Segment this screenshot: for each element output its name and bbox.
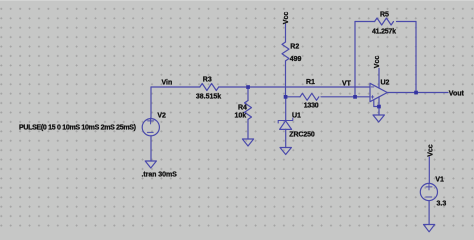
ground bbox=[424, 225, 435, 232]
op-amp bottom pins bbox=[374, 97, 379, 115]
node junction output/feedback bbox=[414, 91, 418, 95]
resistor R1 bbox=[300, 93, 319, 100]
wire main to op-amp bbox=[219, 86, 370, 88]
zener diode U1 bbox=[278, 118, 293, 123]
resistor R5 bbox=[375, 18, 394, 25]
svg-text:3.3: 3.3 bbox=[437, 201, 447, 208]
ground bbox=[145, 161, 156, 168]
svg-text:V1: V1 bbox=[435, 177, 444, 184]
op-amp Vcc pin bbox=[378, 68, 380, 88]
svg-text:Vcc: Vcc bbox=[427, 144, 434, 157]
svg-text:1330: 1330 bbox=[304, 103, 319, 110]
wire feedback top left bbox=[355, 21, 375, 23]
wire V1 Vcc lead bbox=[428, 157, 430, 183]
wire output bbox=[387, 92, 448, 94]
voltage source V2 bbox=[142, 119, 159, 136]
wire feedback right vertical bbox=[415, 22, 417, 93]
svg-text:U2: U2 bbox=[381, 79, 390, 86]
wire Vcc stub to R2 bbox=[285, 24, 287, 42]
svg-text:V2: V2 bbox=[157, 113, 166, 120]
svg-text:R3: R3 bbox=[203, 77, 212, 84]
wire feedback left vertical bbox=[354, 22, 356, 97]
ground bbox=[242, 139, 253, 146]
node junction R2/U1/R1 bbox=[284, 95, 288, 99]
svg-text:41.257k: 41.257k bbox=[372, 29, 396, 36]
svg-text:499: 499 bbox=[290, 56, 302, 63]
resistor R4 bbox=[245, 101, 252, 120]
wire node to R1 bbox=[286, 96, 301, 98]
wire zener bottom lead bbox=[285, 129, 287, 147]
svg-text:R4: R4 bbox=[238, 104, 247, 111]
svg-text:U1: U1 bbox=[292, 112, 301, 119]
svg-text:R1: R1 bbox=[306, 79, 315, 86]
wire Vin main left segment bbox=[151, 86, 200, 88]
svg-text:ZRC250: ZRC250 bbox=[289, 132, 315, 139]
resistor R2 bbox=[282, 42, 289, 61]
wire zener top lead bbox=[285, 97, 287, 121]
wire R1 to op-amp bbox=[321, 96, 370, 98]
svg-text:38.515k: 38.515k bbox=[196, 93, 221, 100]
wire V2 top lead bbox=[150, 87, 152, 119]
node junction op-amp power bbox=[377, 105, 381, 109]
svg-text:10k: 10k bbox=[235, 112, 247, 119]
op-amp U2 bbox=[370, 83, 387, 101]
wire feedback top right bbox=[397, 21, 417, 23]
wire V2 bottom lead bbox=[150, 136, 152, 161]
node junction R3/R4 bbox=[246, 85, 250, 89]
voltage source V1 bbox=[420, 183, 437, 200]
svg-text:Vout: Vout bbox=[449, 91, 465, 98]
wire V1 bottom lead bbox=[428, 201, 430, 225]
svg-text:R2: R2 bbox=[290, 43, 299, 50]
svg-text:Vcc: Vcc bbox=[374, 56, 381, 69]
resistor R3 bbox=[200, 84, 219, 91]
ground bbox=[373, 115, 384, 122]
svg-text:VT: VT bbox=[342, 80, 352, 87]
wire R2 to node bbox=[285, 61, 287, 97]
wire R4 top lead bbox=[247, 87, 249, 101]
wire R4 bottom lead bbox=[247, 120, 249, 140]
svg-text:Vin: Vin bbox=[162, 80, 173, 87]
node junction R1/feedback bbox=[353, 95, 357, 99]
svg-text:R5: R5 bbox=[380, 12, 389, 19]
ground bbox=[280, 148, 291, 155]
svg-text:.tran 30mS: .tran 30mS bbox=[142, 172, 178, 179]
svg-text:Vcc: Vcc bbox=[283, 12, 290, 25]
svg-text:PULSE(0 15 0 10mS 10mS 2mS 25m: PULSE(0 15 0 10mS 10mS 2mS 25mS) bbox=[19, 125, 136, 132]
